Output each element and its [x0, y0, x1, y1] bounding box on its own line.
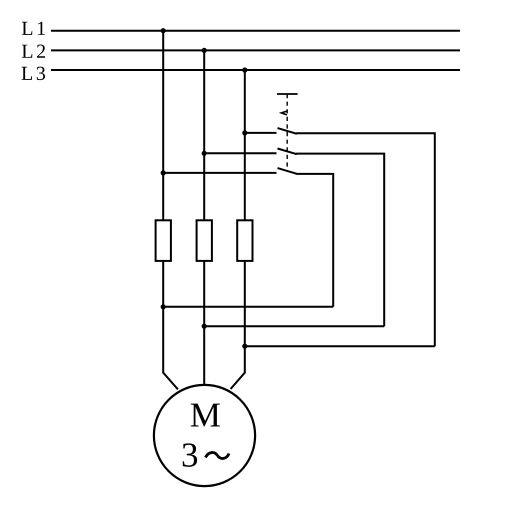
wire phase1 vertical lower (R1 to motor)	[163, 261, 178, 390]
label L1	[22, 22, 32, 35]
wire contact 3 to left drop	[296, 174, 333, 307]
resistor R3	[237, 220, 252, 261]
wire phase2 tap to contact 2	[204, 152, 276, 154]
wire phase1 vertical upper (L1 to R1)	[162, 31, 164, 221]
label L3	[22, 67, 32, 80]
resistor R2	[197, 220, 212, 261]
motion arrow (chevron)	[281, 111, 287, 115]
switch linkage (dashed)	[286, 94, 288, 171]
wire contact 1 to right drop	[296, 133, 435, 346]
wire phase1 tap to contact 3	[163, 172, 276, 174]
wire bypass return to phase2	[204, 325, 384, 327]
wire phase3 tap to contact 1	[245, 132, 277, 134]
node phase3 bypass join	[242, 344, 247, 349]
node L1 tap	[161, 28, 166, 33]
wire L2 (middle bus)	[51, 49, 460, 51]
motor label ~ (tilde)	[206, 453, 230, 459]
wire phase3 vertical lower (R3 to motor)	[231, 261, 245, 389]
motor label 3	[183, 443, 197, 467]
node L2 tap	[202, 48, 207, 53]
node phase1 bypass join	[161, 304, 166, 309]
motor M1 (circle)	[154, 385, 255, 486]
switch contact 2 blade	[278, 149, 297, 155]
node phase1 switch tap	[161, 170, 166, 175]
wire phase2 vertical lower (R2 to motor)	[203, 261, 205, 386]
wire phase2 vertical upper (L2 to R2)	[203, 50, 205, 220]
wire contact 2 to middle drop	[296, 154, 384, 327]
wire bypass return to phase1	[163, 306, 333, 308]
resistor R1	[156, 220, 171, 261]
wire L3 (bottom bus)	[51, 69, 460, 71]
wire phase3 vertical upper (L3 to R3)	[244, 70, 246, 220]
switch contact 3 blade	[278, 168, 297, 174]
wire bypass return to phase3	[245, 345, 435, 347]
motor label M	[191, 404, 220, 427]
switch actuator bar	[277, 93, 298, 95]
label L2	[22, 45, 32, 58]
node phase2 switch tap	[202, 151, 207, 156]
node phase2 bypass join	[202, 324, 207, 329]
wire L1 (top bus)	[51, 30, 460, 32]
switch contact 1 blade	[278, 128, 297, 134]
node L3 tap	[242, 67, 247, 72]
node phase3 switch tap	[242, 130, 247, 135]
